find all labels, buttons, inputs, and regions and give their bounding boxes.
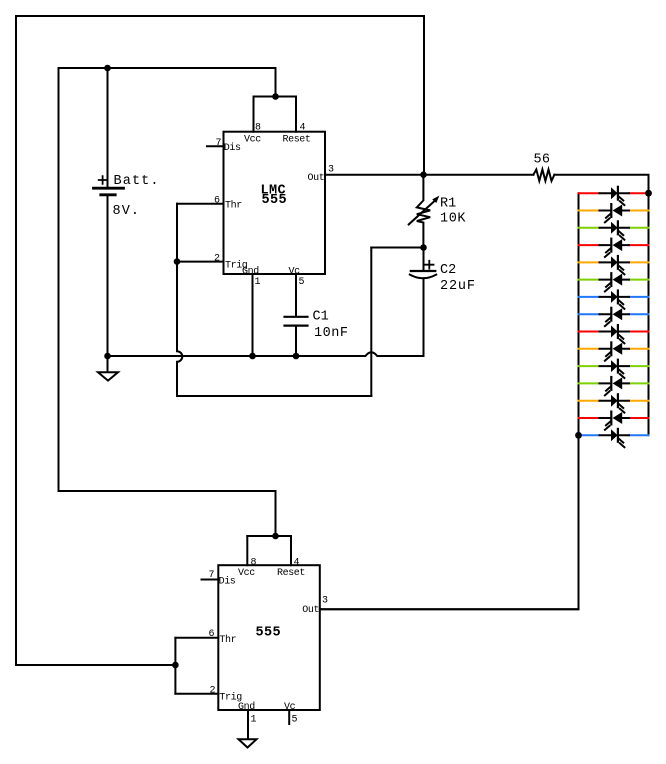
wire: Vcc rail horizontal y=68 [59,67,276,69]
pin 6 wire U2 (Thr) [175,637,218,639]
svg-text:555: 555 [262,193,288,208]
LED D7 (blu LED, right-pointing, with colored leads) [579,291,649,309]
svg-text:Out: Out [302,605,319,616]
LED D5 (org LED, right-pointing, with colored leads) [579,256,649,274]
svg-text:C2: C2 [440,263,456,278]
node: junction dot Out / R1 top [420,171,427,178]
svg-text:7: 7 [216,138,222,149]
wire: U1 Thr-Trig link [176,204,178,262]
wire: battery top lead [107,68,109,187]
svg-text:4: 4 [294,558,300,569]
svg-text:5: 5 [292,715,298,726]
ground symbol at U2 pin 1 [239,739,257,747]
pin 1 stub U2 (Gnd) [247,710,249,739]
node: junction dot U2 bracket [272,533,279,540]
node: junction dot C1 on rail [293,353,300,360]
battery B1 plus terminal [99,176,107,184]
wire: LED bottom to IC2 Out [320,435,579,609]
wire: C2 top lead [423,248,425,271]
wire: outer loop top [16,15,424,17]
svg-text:3: 3 [322,596,328,607]
svg-text:8: 8 [255,123,261,134]
LED D12 (grn LED, left-pointing, with colored leads) [579,377,649,395]
pin 1 stub U1 (Gnd) [252,274,254,356]
wire: Vcc rail drop to IC1 bracket [275,68,277,97]
wire: C1 bottom lead [295,326,297,356]
node: junction dot battery bottom / ground rail [104,353,111,360]
IC U1 LMC555 body [224,132,326,274]
pin 2 wire U2 (Trig) [175,693,218,695]
pin 7 stub U2 (Dis) [202,579,219,581]
pin 7 stub U1 (Dis) [207,145,224,147]
svg-text:Thr: Thr [225,200,242,212]
LED D13 (org LED, right-pointing, with colored leads) [579,394,649,412]
wire: feedback horizontal y=396 [177,395,371,397]
LED D10 (org LED, left-pointing, with colored leads) [579,342,649,360]
node: junction dot U1 Trig [174,258,181,265]
svg-text:4: 4 [300,123,306,134]
wire: battery bottom lead [107,195,109,356]
capacitor C2 plates (polarized) [410,271,436,278]
svg-text:Out: Out [308,173,325,184]
wire: Out to 56 resistor [424,174,533,176]
pin 3 wire U1 (Out) [325,174,424,176]
pin 2 wire U1 (Trig) [177,261,224,263]
wire: riser down to IC2 bracket [275,491,277,536]
svg-text:10nF: 10nF [314,326,348,341]
pin 5 stub U2 (Vc) [288,710,290,724]
wire: LED left rail [578,193,580,435]
node: junction dot U1 bracket [272,93,279,100]
svg-text:2: 2 [214,254,220,265]
svg-text:Dis: Dis [219,576,236,588]
pin 4 stub U2 [290,536,292,565]
wire: feedback vertical x=369 (passes under rail hop) [370,248,372,397]
wire: outer loop bottom to IC2 trig node [16,664,175,666]
capacitor C1 plates [285,317,308,326]
svg-text:5: 5 [299,277,305,288]
LED D14 (red LED, left-pointing, with colored leads) [579,412,649,430]
wire: U1 Vcc-Reset bracket [254,96,297,98]
resistor R1 (variable) zigzag [417,175,430,248]
svg-text:7: 7 [209,570,215,581]
svg-text:Vcc: Vcc [244,135,261,146]
svg-text:1: 1 [255,277,261,288]
LED D4 (red LED, left-pointing, with colored leads) [579,239,649,257]
svg-text:56: 56 [534,153,551,168]
wire: outer loop left [15,16,17,665]
svg-text:1: 1 [251,715,257,726]
battery B1 plates [94,188,124,195]
node: junction dot Gnd pin on rail [249,353,256,360]
svg-text:555: 555 [256,626,282,641]
pin 3 wire U2 (Out) [320,608,579,610]
svg-text:Gnd: Gnd [242,266,259,278]
svg-text:Dis: Dis [224,142,241,154]
wire: outer loop right vertical down to Out node [423,16,425,175]
wire: 56 resistor to LED column [554,175,648,194]
wire: feedback vertical x=177 from Trig node (passes under rail hop) [177,262,182,396]
pin 5 stub U1 (Vc) [295,274,297,316]
wire: ground rail y=356 with two wire hops [108,352,424,356]
pin 8 stub U1 [253,97,255,132]
wire: C2 bottom lead to ground rail [423,278,425,356]
wire: U2 Thr-Trig link [174,638,176,694]
node: junction dot battery top [104,65,111,72]
ground symbol at battery [98,356,118,381]
wire: U2 Vcc-Reset bracket [247,535,291,537]
node: junction dot LED top right [645,190,652,197]
svg-text:Vc: Vc [289,267,301,278]
pin 4 stub U1 [295,97,297,132]
svg-text:Reset: Reset [277,568,305,579]
LED D3 (grn LED, right-pointing, with colored leads) [579,221,649,239]
IC U2 555 body [218,565,319,710]
svg-text:22uF: 22uF [440,279,475,294]
wire: second vertical x=58.5 down to IC2 [58,68,60,491]
svg-text:10K: 10K [440,212,466,227]
svg-text:6: 6 [214,196,220,207]
svg-text:Reset: Reset [283,135,311,146]
LED D2 (org LED, left-pointing, with colored leads) [579,204,649,222]
svg-text:2: 2 [210,686,216,697]
pin 8 stub U2 [246,536,248,565]
node: junction dot LED bottom left [575,432,582,439]
svg-text:Batt.: Batt. [114,174,159,189]
LED D11 (grn LED, right-pointing, with colored leads) [579,360,649,378]
wire: LED right rail [648,193,650,435]
svg-text:Gnd: Gnd [238,701,255,713]
wire: feedback horizontal y=247.5 [371,247,423,249]
LED D8 (blu LED, left-pointing, with colored leads) [579,308,649,326]
LED D9 (red LED, right-pointing, with colored leads) [579,325,649,343]
LED D15 (blu LED, right-pointing, with colored leads) [579,429,649,447]
svg-text:6: 6 [209,629,215,640]
svg-text:C1: C1 [313,310,329,325]
LED D1 (red LED, right-pointing, with colored leads) [579,187,649,205]
node: junction dot R1 / C2 / feedback [420,244,427,251]
capacitor C2 plus sign [425,261,433,269]
svg-text:Thr: Thr [219,634,236,646]
svg-text:3: 3 [328,165,334,176]
wire: horizontal y=491 to IC2 bracket riser [59,490,276,492]
svg-text:Vcc: Vcc [238,568,255,579]
pin 6 wire U1 (Thr) [177,203,224,205]
svg-text:8V.: 8V. [113,204,140,219]
LED D6 (grn LED, left-pointing, with colored leads) [579,273,649,291]
R1 adjustment arrow [409,196,440,225]
svg-text:8: 8 [251,558,257,569]
svg-text:R1: R1 [440,197,456,212]
resistor 56 zigzag [533,170,554,181]
node: junction dot U2 Trig feed [172,662,179,669]
